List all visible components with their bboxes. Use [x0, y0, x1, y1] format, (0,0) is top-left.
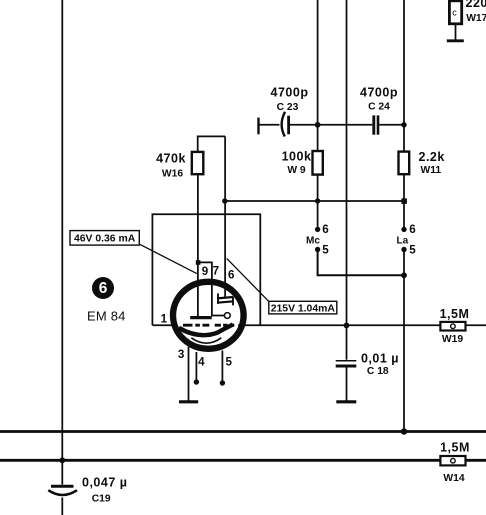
- svg-text:W11: W11: [421, 165, 442, 176]
- svg-text:215V 1.04mA: 215V 1.04mA: [271, 303, 336, 314]
- node dot La contact 5: [401, 247, 406, 252]
- svg-text:6: 6: [409, 223, 416, 236]
- node dot C23/W9 junction: [315, 122, 321, 128]
- svg-text:W17: W17: [466, 13, 486, 24]
- ground bar under W17: [447, 39, 464, 42]
- svg-text:W19: W19: [442, 334, 463, 345]
- resistor W19 1.5M horizontal: [440, 322, 465, 331]
- wire: vertical line above 100k W9: [317, 0, 319, 151]
- svg-text:9: 9: [202, 265, 209, 278]
- wire: bus line 1: [0, 430, 486, 433]
- deflection electrode right tick: [232, 297, 234, 305]
- deflection electrode left tick: [217, 293, 219, 303]
- capacitor C24 left plate: [372, 115, 375, 134]
- grid bar inside tube: [190, 316, 212, 319]
- fluorescent display thick arc: [179, 324, 233, 335]
- wire: bus line 2 left of W14: [0, 459, 440, 462]
- ground bar pin 3: [179, 400, 198, 403]
- node: open terminal bar left of C23: [257, 118, 259, 135]
- wire: target dashed line inside tube: [183, 324, 209, 327]
- wire: C18 lower lead: [346, 367, 348, 401]
- wire: vertical line above 2.2k W11: [403, 0, 405, 152]
- wire: W17 lower lead: [455, 24, 457, 40]
- svg-text:Mc: Mc: [306, 235, 320, 246]
- svg-text:W16: W16: [162, 169, 183, 180]
- wire: C23 to C24: [290, 124, 373, 126]
- wire: La contact 5 down to bus 1: [403, 250, 405, 432]
- node square dot pin 9 junction: [196, 260, 201, 265]
- deflection electrode upper bar: [217, 297, 233, 298]
- wire: pin 7 branch: [199, 262, 225, 315]
- tube box EM84 shield rectangle: [152, 214, 260, 325]
- node square dot W11 bottom / wire y201: [401, 198, 407, 204]
- svg-text:7: 7: [213, 264, 219, 277]
- wire: 100k W9 bottom lead: [317, 175, 319, 230]
- svg-text:3: 3: [178, 348, 185, 361]
- node dot Mc contact 6: [315, 227, 320, 232]
- capacitor C24 right plate: [377, 115, 380, 134]
- node dot bus2 / left line: [59, 457, 65, 463]
- wire: 470k W16 top lead L-shape to pin6 line: [198, 136, 225, 152]
- wire: Mc contact 5 down lead: [318, 250, 404, 276]
- svg-text:0,047 µ: 0,047 µ: [82, 476, 127, 490]
- badge circled 6: [92, 277, 114, 299]
- svg-text:6: 6: [322, 223, 329, 236]
- wire: after W19 to right edge: [466, 324, 486, 326]
- svg-text:0,01 µ: 0,01 µ: [361, 351, 399, 365]
- svg-text:100k: 100k: [282, 150, 312, 164]
- node dot on y275 wire: [401, 272, 407, 278]
- leader line to 215V label: [227, 258, 269, 301]
- node dot wire y325 / C18 branch: [344, 323, 350, 329]
- capacitor C19 curved plate: [48, 490, 77, 495]
- resistor R W16 470k: [192, 152, 204, 174]
- resistor W14 1.5M horizontal: [440, 456, 465, 465]
- svg-text:6: 6: [99, 280, 108, 297]
- wire: tube pin 4 lead: [195, 352, 197, 382]
- node dot La contact 6: [401, 227, 406, 232]
- node dot heater pin 5: [220, 380, 225, 385]
- wire: anode supply wire y=325 to right edge: [238, 324, 440, 326]
- svg-text:5: 5: [322, 243, 329, 256]
- node dot bus1 / x404: [401, 428, 407, 434]
- measurement box 46V 0.36mA: [70, 231, 139, 246]
- svg-text:La: La: [397, 235, 409, 246]
- svg-text:4: 4: [198, 356, 205, 369]
- wire: terminal to C23: [259, 124, 280, 126]
- svg-text:1,5M: 1,5M: [440, 441, 470, 455]
- svg-text:W14: W14: [443, 473, 464, 484]
- svg-text:220: 220: [466, 0, 486, 10]
- svg-text:1,5M: 1,5M: [440, 307, 470, 321]
- svg-text:C19: C19: [92, 493, 111, 504]
- deflection electrode lower bar: [217, 301, 233, 302]
- wire: 470k W16 bottom lead and grid line: [197, 174, 199, 317]
- fluorescent display thin arc: [191, 338, 221, 343]
- wire: pin1 lead left of tube: [152, 324, 176, 326]
- wire: long left vertical line below C19: [61, 498, 63, 515]
- node dot 470k top / wire y201: [222, 198, 227, 203]
- wire: long left vertical line upper part: [61, 0, 63, 485]
- node dot C24/W11 junction: [401, 122, 406, 127]
- wire: vertical line x=346 from top to C18: [346, 0, 348, 360]
- leader line to 46V label: [139, 244, 197, 274]
- node dot heater pin 4: [194, 379, 199, 384]
- wire: 2.2k W11 bottom lead: [403, 174, 405, 229]
- wire: bus line 2 right of W14: [466, 459, 486, 462]
- capacitor C18 top plate: [336, 360, 357, 362]
- resistor R W9 100k: [313, 151, 323, 175]
- capacitor C19 top plate: [51, 485, 74, 488]
- svg-text:2.2k: 2.2k: [419, 150, 445, 164]
- resistor W17 220 top right: [449, 1, 461, 24]
- measurement box 215V 1.04mA: [269, 301, 337, 314]
- svg-text:6: 6: [228, 269, 235, 282]
- svg-text:W 9: W 9: [287, 165, 306, 176]
- svg-text:C 23: C 23: [277, 102, 299, 113]
- svg-text:1: 1: [161, 313, 168, 326]
- ground bar under C18: [336, 400, 356, 403]
- op-amp: none; tube EM84 envelope circle: [173, 282, 244, 349]
- wire: tube pin 3 lead: [188, 347, 190, 401]
- node dot Mc contact 5: [315, 247, 320, 252]
- svg-text:5: 5: [409, 243, 416, 256]
- wire: horizontal wire y=201: [225, 200, 404, 202]
- svg-text:EM 84: EM 84: [87, 309, 126, 324]
- svg-text:4700p: 4700p: [360, 86, 398, 100]
- svg-text:470k: 470k: [156, 152, 186, 166]
- capacitor C18 bottom plate: [336, 365, 357, 368]
- svg-text:C 18: C 18: [367, 366, 389, 377]
- capacitor C23 curved plate: [282, 112, 285, 137]
- resistor R W11 2.2k: [399, 152, 410, 175]
- svg-text:4700p: 4700p: [271, 86, 309, 100]
- svg-text:c: c: [452, 8, 457, 18]
- svg-text:46V 0.36 mA: 46V 0.36 mA: [74, 234, 136, 245]
- wire: tube pin 5 lead: [221, 351, 223, 383]
- capacitor C23 straight plate: [287, 116, 290, 135]
- wire: pin 6 vertical line into tube: [224, 136, 226, 298]
- tube pin7 target circle: [224, 313, 230, 319]
- svg-text:C 24: C 24: [368, 102, 390, 113]
- wire: C24 to node: [379, 124, 404, 126]
- svg-text:5: 5: [225, 356, 232, 369]
- node dot W9 bottom / wire y201: [315, 198, 320, 203]
